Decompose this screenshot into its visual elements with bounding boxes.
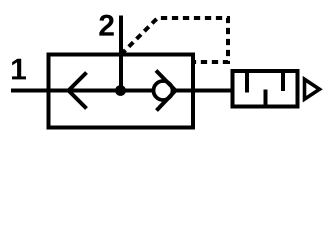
junction dot node [115, 85, 126, 96]
label port 2 [99, 15, 113, 36]
flow arrow pointing left [69, 73, 87, 109]
silencer baffle 3 [281, 71, 285, 91]
wire internal main line left (to check ball) [50, 89, 155, 93]
pilot line (dashed) from port 2 to exhaust side [121, 18, 228, 62]
wire from seat apex to silencer [176, 89, 233, 93]
silencer baffle 2 [264, 90, 268, 107]
valve body box [49, 55, 194, 128]
check valve seat [156, 71, 176, 111]
silencer body [233, 71, 298, 107]
silencer baffle 1 [245, 71, 249, 93]
check valve ball [154, 81, 173, 100]
wire port 2 vertical line [119, 16, 123, 91]
label port 1 [12, 59, 26, 80]
exhaust triangle [305, 79, 320, 99]
wire port 1 to valve body [11, 89, 50, 93]
